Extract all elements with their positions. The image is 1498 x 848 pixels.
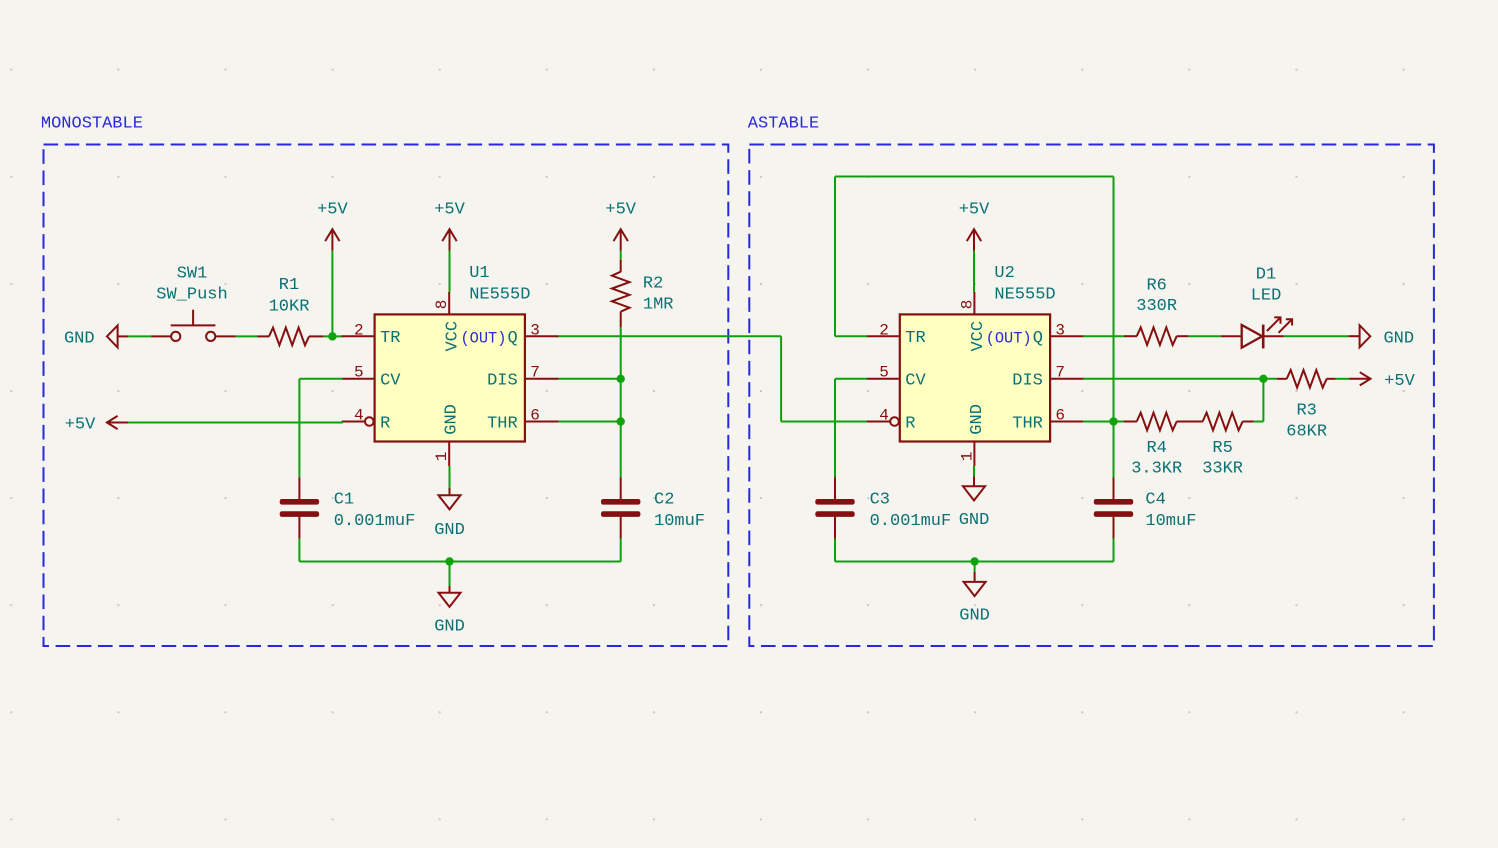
LED D1 bbox=[1221, 265, 1292, 348]
junction TR / +5V / R1 bbox=[328, 332, 336, 340]
resistor R6 330R bbox=[1124, 277, 1189, 346]
svg-text:3.3KR: 3.3KR bbox=[1131, 459, 1182, 478]
region box MONOSTABLE bbox=[41, 114, 728, 646]
svg-text:(OUT): (OUT) bbox=[986, 329, 1032, 347]
resistor R2 1MR bbox=[612, 260, 674, 328]
svg-text:Q: Q bbox=[1033, 329, 1043, 348]
junction THR / C4 / R4 bbox=[1109, 417, 1117, 425]
svg-text:GND: GND bbox=[64, 329, 95, 348]
IC U1 NE555D body bbox=[375, 314, 525, 441]
svg-text:+5V: +5V bbox=[959, 201, 990, 220]
power +5V (U1 VCC) bbox=[434, 201, 465, 251]
svg-text:1: 1 bbox=[433, 452, 451, 462]
svg-text:+5V: +5V bbox=[1384, 372, 1415, 391]
svg-text:+5V: +5V bbox=[605, 201, 636, 220]
power +5V label (monostable reset, left) bbox=[65, 416, 129, 435]
power +5V (monostable trigger pull-up) bbox=[317, 201, 348, 251]
wire feedback up bbox=[834, 177, 836, 337]
wire C3 to ground rail bbox=[834, 539, 836, 562]
wire R2 to DIS junction bbox=[620, 327, 622, 378]
junction DIS / R2 bbox=[617, 375, 625, 383]
U1 pin 5 (CV) bbox=[342, 364, 375, 382]
svg-text:R3: R3 bbox=[1296, 401, 1316, 420]
svg-text:8: 8 bbox=[433, 300, 451, 310]
svg-text:330R: 330R bbox=[1136, 297, 1177, 316]
svg-text:NE555D: NE555D bbox=[469, 286, 530, 305]
capacitor C2 10muF bbox=[601, 478, 705, 539]
wire U2 THR to junction bbox=[1083, 421, 1123, 423]
svg-text:LED: LED bbox=[1251, 286, 1282, 305]
svg-text:R6: R6 bbox=[1146, 277, 1166, 296]
svg-text:3: 3 bbox=[1055, 321, 1065, 339]
resistor R1 10KR bbox=[257, 276, 323, 345]
power +5V label (astable right) bbox=[1350, 372, 1416, 391]
U1 pin 6 (THR) bbox=[525, 406, 559, 424]
wire CV to C1 (horizontal) bbox=[299, 378, 343, 380]
svg-text:NE555D: NE555D bbox=[994, 286, 1055, 305]
wire CV down to C1 bbox=[298, 379, 300, 478]
svg-text:5: 5 bbox=[354, 364, 364, 382]
U2 pin 6 (THR) bbox=[1050, 406, 1084, 424]
wire CV down to C3 bbox=[834, 379, 836, 478]
svg-text:GND: GND bbox=[1383, 329, 1414, 348]
wire U1 pin1 to GND bbox=[449, 466, 451, 488]
ground GND (monostable rail) bbox=[434, 593, 465, 637]
svg-text:7: 7 bbox=[530, 364, 540, 382]
svg-text:GND: GND bbox=[434, 521, 465, 540]
capacitor C3 0.001muF bbox=[815, 478, 951, 539]
svg-text:R4: R4 bbox=[1146, 439, 1166, 458]
U1 pin 4 (R, inverted) bbox=[342, 406, 374, 425]
svg-text:SW_Push: SW_Push bbox=[156, 286, 227, 305]
power +5V (U2 VCC) bbox=[959, 201, 990, 251]
U1 pin 2 (TR) bbox=[342, 321, 375, 339]
junction DIS / R3 / R5 bbox=[1259, 375, 1267, 383]
wire U1 VCC to +5V bbox=[449, 251, 451, 292]
svg-text:4: 4 bbox=[354, 406, 364, 424]
ground GND (U1 pin 1) bbox=[434, 495, 465, 540]
wire U1 DIS to R2 node bbox=[558, 378, 620, 380]
global label GND (monostable left) bbox=[64, 325, 128, 348]
svg-text:GND: GND bbox=[959, 607, 990, 626]
U1 pin 8 (VCC) bbox=[433, 292, 451, 314]
wire C1 to ground rail bbox=[298, 539, 300, 562]
svg-text:GND: GND bbox=[968, 404, 987, 435]
svg-text:0.001muF: 0.001muF bbox=[870, 512, 952, 531]
svg-text:TR: TR bbox=[905, 329, 925, 348]
svg-text:5: 5 bbox=[879, 364, 889, 382]
svg-text:10KR: 10KR bbox=[269, 298, 310, 317]
U2 pin 1 (GND) bbox=[958, 442, 976, 467]
svg-text:DIS: DIS bbox=[1012, 372, 1043, 391]
U1 pin 3 (Q) bbox=[525, 321, 559, 339]
resistor R4 3.3KR bbox=[1123, 413, 1202, 479]
wire OUT to U2 pin 4 bbox=[781, 421, 869, 423]
U2 pin 2 (TR) bbox=[867, 321, 900, 339]
svg-text:68KR: 68KR bbox=[1286, 422, 1327, 441]
svg-text:10muF: 10muF bbox=[654, 512, 705, 531]
wire U2 DIS to R3 junction bbox=[1083, 378, 1277, 380]
svg-text:THR: THR bbox=[487, 414, 518, 433]
svg-text:1: 1 bbox=[958, 452, 976, 462]
svg-text:2: 2 bbox=[879, 321, 889, 339]
svg-text:+5V: +5V bbox=[434, 201, 465, 220]
wire feedback top bbox=[835, 176, 1114, 178]
ground GND (astable rail) bbox=[959, 582, 990, 626]
svg-text:R1: R1 bbox=[279, 276, 299, 295]
wire DIS node down to THR node bbox=[620, 379, 622, 422]
svg-text:THR: THR bbox=[1012, 414, 1043, 433]
wire U2 CV left bbox=[835, 378, 867, 380]
svg-text:7: 7 bbox=[1055, 364, 1065, 382]
resistor R3 68KR bbox=[1277, 370, 1336, 441]
svg-text:8: 8 bbox=[958, 300, 976, 310]
wire R3 to +5V label bbox=[1336, 378, 1350, 380]
U2 pin 3 (Q) bbox=[1050, 321, 1084, 339]
wire U1 THR to node bbox=[558, 421, 620, 423]
svg-text:TR: TR bbox=[380, 329, 400, 348]
svg-text:(OUT): (OUT) bbox=[460, 329, 506, 347]
lead between R4 and R5 bbox=[1177, 421, 1203, 423]
U1 pin 1 (GND) bbox=[433, 442, 451, 467]
global label GND (astable right) bbox=[1348, 325, 1414, 348]
U2 pin 7 (DIS) bbox=[1050, 364, 1084, 382]
wire D1 to GND label bbox=[1284, 335, 1349, 337]
svg-text:SW1: SW1 bbox=[177, 265, 208, 284]
svg-text:ASTABLE: ASTABLE bbox=[748, 114, 819, 133]
wire R5 to corner bbox=[1254, 421, 1264, 423]
wire U2 VCC to +5V bbox=[973, 251, 975, 292]
wire THR node down to C2 bbox=[620, 422, 622, 478]
capacitor C4 10muF bbox=[1094, 478, 1197, 539]
svg-text:U1: U1 bbox=[469, 264, 489, 283]
svg-text:R5: R5 bbox=[1212, 439, 1232, 458]
IC U2 NE555D body bbox=[900, 314, 1050, 441]
svg-text:0.001muF: 0.001muF bbox=[334, 512, 416, 531]
junction THR / C2 bbox=[617, 417, 625, 425]
wire feedback down to THR bbox=[1113, 177, 1115, 422]
svg-text:GND: GND bbox=[959, 511, 990, 530]
svg-text:1MR: 1MR bbox=[643, 296, 674, 315]
U2 pin 4 (R, inverted) bbox=[867, 406, 899, 425]
svg-text:C3: C3 bbox=[870, 491, 890, 510]
wire +5V to R2 bbox=[620, 251, 622, 260]
svg-text:U2: U2 bbox=[994, 264, 1014, 283]
svg-text:DIS: DIS bbox=[487, 372, 518, 391]
svg-text:VCC: VCC bbox=[969, 321, 988, 352]
svg-text:+5V: +5V bbox=[65, 416, 96, 435]
svg-text:R2: R2 bbox=[643, 275, 663, 294]
wire rail to GND symbol (astable) bbox=[974, 562, 976, 573]
wire C4 to ground rail bbox=[1113, 539, 1115, 562]
svg-text:R: R bbox=[905, 414, 915, 433]
svg-text:4: 4 bbox=[879, 406, 889, 424]
wire U1 Q output to astable (node OUT) bbox=[558, 335, 781, 337]
wire +5V to U1 pin 4 bbox=[128, 422, 343, 424]
svg-text:MONOSTABLE: MONOSTABLE bbox=[41, 114, 143, 133]
wire C2 to ground rail bbox=[620, 539, 622, 562]
wire U2 pin1 to GND bbox=[973, 466, 975, 476]
U2 pin 5 (CV) bbox=[867, 364, 900, 382]
switch SW1 SW_Push bbox=[152, 265, 236, 341]
resistor R5 33KR bbox=[1202, 413, 1254, 479]
svg-text:C1: C1 bbox=[334, 491, 354, 510]
junction astable ground rail bbox=[970, 557, 978, 565]
wire +5V down to TR junction bbox=[331, 251, 333, 337]
wire U2 Q to R6 bbox=[1083, 335, 1124, 337]
wire corner up to DIS line bbox=[1262, 379, 1264, 422]
svg-text:R: R bbox=[380, 414, 390, 433]
svg-text:D1: D1 bbox=[1256, 265, 1276, 284]
wire ground rail (astable) bbox=[835, 561, 1114, 563]
svg-text:33KR: 33KR bbox=[1202, 459, 1243, 478]
svg-text:VCC: VCC bbox=[444, 321, 463, 352]
wire R6 to D1 bbox=[1189, 335, 1222, 337]
ground GND (U2 pin 1) bbox=[959, 486, 990, 530]
svg-text:C2: C2 bbox=[654, 491, 674, 510]
svg-text:+5V: +5V bbox=[317, 201, 348, 220]
D1 emission arrows bbox=[1267, 318, 1280, 331]
wire GND label to SW1 bbox=[128, 335, 152, 337]
svg-text:6: 6 bbox=[530, 406, 540, 424]
wire U2 TR feedback left bbox=[835, 335, 867, 337]
svg-text:10muF: 10muF bbox=[1145, 512, 1196, 531]
wire R1 to U1 pin 2 (node TR) bbox=[323, 335, 343, 337]
wire ground rail (monostable) bbox=[299, 561, 620, 563]
svg-text:CV: CV bbox=[380, 372, 401, 391]
svg-text:C4: C4 bbox=[1145, 491, 1165, 510]
U2 pin 8 (VCC) bbox=[958, 292, 976, 314]
wire OUT down bbox=[780, 336, 782, 421]
svg-text:Q: Q bbox=[507, 329, 517, 348]
U1 pin 7 (DIS) bbox=[525, 364, 559, 382]
junction ground rail bbox=[445, 557, 453, 565]
capacitor C1 0.001muF bbox=[280, 478, 416, 539]
svg-text:CV: CV bbox=[905, 372, 926, 391]
svg-text:6: 6 bbox=[1055, 406, 1065, 424]
wire THR node down to C4 bbox=[1113, 422, 1115, 478]
power +5V (R2 top) bbox=[605, 201, 636, 251]
wire SW1 to R1 bbox=[236, 335, 258, 337]
svg-text:GND: GND bbox=[443, 404, 462, 435]
region box ASTABLE bbox=[748, 114, 1434, 646]
svg-text:2: 2 bbox=[354, 321, 364, 339]
wire rail to GND symbol bbox=[449, 562, 451, 587]
svg-text:3: 3 bbox=[530, 321, 540, 339]
svg-text:GND: GND bbox=[434, 617, 465, 636]
